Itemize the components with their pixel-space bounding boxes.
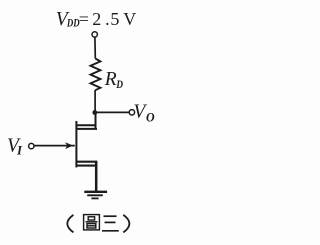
svg-text:=: = [79, 9, 89, 29]
transistor Q1 source stub (double line) [77, 162, 98, 166]
transistor Q1 drain lead [95, 113, 97, 130]
ground symbol [84, 192, 107, 199]
transistor Q1 drain stub (double line) [77, 125, 98, 129]
open paren [67, 215, 73, 233]
resistor RD zigzag [91, 59, 101, 91]
VDD terminal [92, 32, 97, 37]
svg-text:2: 2 [92, 9, 101, 29]
gate wire with arrow [34, 145, 75, 147]
gate arrowhead [65, 142, 73, 149]
input label VI [7, 136, 23, 158]
hanzi SAN (three) [102, 216, 119, 231]
svg-text:R: R [104, 69, 117, 90]
VI terminal [29, 143, 34, 148]
transistor Q1 source lead [95, 161, 98, 191]
wire resistor to drain node [94, 90, 96, 113]
svg-text:5: 5 [110, 9, 119, 29]
supply label VDD=2.5 V [56, 9, 137, 30]
resistor label RD [104, 69, 124, 91]
wire node to VO terminal [95, 111, 129, 113]
output label VO [133, 102, 155, 125]
transistor Q1 gate bar [75, 121, 77, 167]
svg-text:D: D [116, 77, 124, 91]
VO terminal [129, 110, 134, 115]
wire VDD terminal to resistor [94, 37, 96, 58]
svg-text:O: O [146, 109, 155, 124]
svg-text:V: V [123, 9, 136, 29]
node junction dot [92, 110, 97, 115]
svg-text:.: . [105, 9, 110, 29]
caption (figure three) [67, 215, 129, 233]
hanzi TU (figure) [84, 215, 100, 230]
close paren [123, 215, 129, 233]
